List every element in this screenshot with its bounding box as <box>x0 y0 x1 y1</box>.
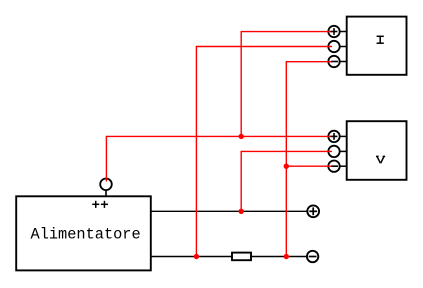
voltmeter + terminal plus mark <box>331 133 338 140</box>
label V <box>376 156 385 163</box>
label ++ <box>92 201 108 208</box>
wire black: Alimentatore + output to plus terminal <box>150 210 307 212</box>
output - terminal minus mark <box>309 256 317 258</box>
voltmeter box V <box>347 121 407 180</box>
ammeter terminal - circle <box>328 56 346 67</box>
junction dot on negative black wire at x=286 <box>284 254 289 259</box>
wire red: net V- stub from I- vertical to voltmeter - terminal <box>286 165 332 167</box>
wire red: net I-mid from bottom negative wire up and right to ammeter middle terminal <box>196 47 332 257</box>
resistor shunt on negative wire <box>232 253 251 261</box>
voltmeter terminal + circle <box>328 131 346 142</box>
voltmeter - terminal minus mark <box>331 165 338 167</box>
ammeter - terminal minus mark <box>331 61 338 63</box>
wire red: net I- from bottom negative wire up and right to ammeter - terminal <box>286 62 332 257</box>
voltmeter terminal middle circle <box>328 146 346 157</box>
wire black: Alimentatore - output through shunt to minus terminal <box>150 256 307 258</box>
label I <box>377 36 384 43</box>
power supply box Alimentatore <box>16 196 151 270</box>
voltmeter terminal - circle <box>328 161 346 172</box>
output terminal + circle <box>307 205 319 217</box>
ammeter + terminal plus mark <box>331 28 338 35</box>
output terminal - circle <box>307 251 318 262</box>
junction dot on negative black wire at x=196 <box>194 254 199 259</box>
ammeter box I <box>347 17 407 75</box>
ammeter terminal + circle <box>328 26 346 37</box>
junction dot on positive black wire at x=241 <box>239 209 244 214</box>
junction dot on V- wire at x=286 <box>284 164 289 169</box>
ammeter terminal middle circle <box>328 41 346 52</box>
Alimentatore ++ terminal circle on top with stub <box>100 179 112 197</box>
wire red: net V+ from Alimentatore ++ terminal up and right to voltmeter + terminal <box>106 136 332 181</box>
junction dot on V+ rail at x=241 <box>239 134 244 139</box>
wire red: net I+ from V+ rail up and right to ammeter + terminal <box>241 32 332 137</box>
svg-text:Alimentatore: Alimentatore <box>31 226 141 244</box>
output + terminal plus mark <box>309 207 317 215</box>
wire red: net V-mid from positive wire up and right to voltmeter middle terminal <box>241 151 332 211</box>
